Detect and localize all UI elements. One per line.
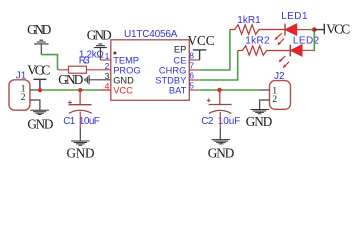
pin 1 marker dot [113,52,116,55]
svg-text:PROG: PROG [113,65,140,75]
ground GND (above IC, pin 1 TEMP) [94,44,107,60]
svg-text:10uF: 10uF [79,116,100,127]
svg-text:3: 3 [105,71,110,81]
svg-text:U1TC4056A: U1TC4056A [124,29,178,40]
wire CHRG to R1 [200,30,230,71]
J1 pin 1 stub [30,89,40,91]
C2 lower stem [219,112,221,128]
svg-text:GND: GND [246,114,273,129]
svg-text:LED2: LED2 [293,36,320,47]
svg-text:J1: J1 [16,70,27,81]
wire STDBY to R2 [200,51,238,81]
ground GND (below J1) [30,110,49,114]
svg-text:8: 8 [189,51,194,61]
svg-text:BAT: BAT [169,85,187,95]
svg-text:10uF: 10uF [218,116,241,127]
svg-text:GND: GND [58,72,83,87]
LED2 [279,45,314,68]
pin 4 VCC stub (red) [100,89,111,91]
C1 lower stem [79,112,81,129]
svg-text:VCC: VCC [326,22,350,37]
svg-text:GND: GND [27,117,53,132]
junction at C2 [217,88,221,92]
pin 3 GND stub [89,79,111,81]
junction at C1 [78,88,82,92]
resistor R2 (zigzag) [238,46,290,55]
resistor R3 [58,66,111,73]
svg-text:STDBY: STDBY [155,75,186,85]
svg-text:CE: CE [173,55,186,65]
junction at VCC (LEDs) [312,27,317,32]
junction at J1/VCC [38,88,42,92]
svg-text:GND: GND [67,145,95,160]
svg-text:2: 2 [21,92,26,103]
svg-text:5: 5 [189,81,194,91]
svg-text:CHRG: CHRG [159,65,186,75]
pin 6 STDBY stub [189,79,199,81]
ground GND (top-left power port) [34,40,49,54]
svg-text:J2: J2 [274,71,285,82]
svg-text:GND: GND [87,28,112,43]
wire main rail J1 to IC pin4 [40,89,100,91]
svg-text:C1: C1 [63,116,75,127]
svg-text:1kR1: 1kR1 [237,15,261,26]
ground GND (below C2) [212,140,231,144]
connector J1 [9,80,30,110]
svg-text:R3: R3 [79,55,90,66]
J1 pin 2 wire to ground [30,100,40,110]
svg-text:GND: GND [27,22,51,37]
svg-text:7: 7 [189,61,194,71]
power port VCC (right, bar style) [314,24,324,34]
svg-text:TEMP: TEMP [113,55,139,65]
ground GND (below J2) [250,110,268,114]
svg-text:GND: GND [208,145,235,160]
wire LED1 anode to VCC junction [309,29,314,31]
svg-text:2: 2 [105,61,110,71]
J2 pin 1 stub [260,89,270,91]
ground GND (pin 3, sideways) [85,75,89,84]
svg-text:VCC: VCC [27,62,50,77]
capacitor C1 10uF [68,90,92,113]
LED1 [274,24,309,46]
svg-text:LED1: LED1 [281,11,308,22]
svg-text:C2: C2 [201,116,214,127]
pin 1 TEMP stub [100,59,110,61]
connector J2 [270,81,291,110]
svg-text:EP: EP [174,45,186,55]
svg-text:VCC: VCC [113,85,133,95]
power port VCC at pin 8 [193,50,206,60]
svg-text:2: 2 [272,94,277,105]
pin 7 CHRG stub [189,69,199,71]
power port VCC at J1 [33,79,46,90]
J2 pin 2 wire to ground [260,100,270,110]
svg-text:6: 6 [189,71,194,81]
op IC U1 TC4056A body [111,40,190,101]
svg-text:VCC: VCC [187,33,214,48]
wire LED2 anode up to VCC junction [313,30,314,51]
wire from top-left GND to R3 [41,55,57,70]
svg-text:4: 4 [105,81,110,91]
wire BAT rail to J2 [200,89,260,91]
capacitor C2 10uF [207,90,232,113]
ground GND (below C1) [71,141,89,145]
svg-text:1: 1 [105,51,110,61]
pin 8 CE stub [189,59,199,61]
svg-text:1kR2: 1kR2 [245,35,270,46]
resistor R1 (zigzag) [230,25,285,34]
pin 5 BAT stub [189,89,199,91]
svg-text:GND: GND [113,75,134,85]
